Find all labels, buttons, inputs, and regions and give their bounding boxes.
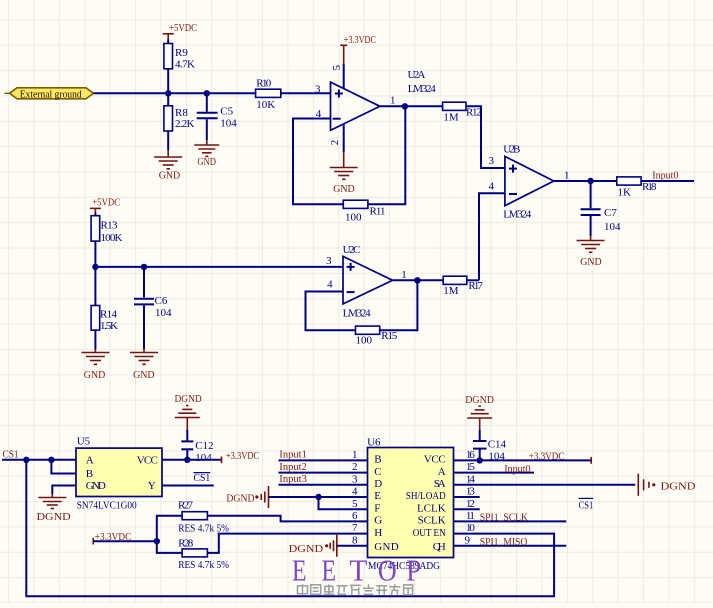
- capacitor C7: [581, 207, 621, 233]
- svg-text:U6: U6: [367, 437, 381, 449]
- svg-text:Input2: Input2: [279, 461, 307, 473]
- wire: [279, 484, 368, 486]
- svg-text:DGND: DGND: [226, 492, 254, 504]
- svg-text:C6: C6: [155, 295, 168, 307]
- capacitor C5: [197, 106, 238, 130]
- svg-text:C12: C12: [195, 440, 213, 452]
- node junction: [204, 90, 210, 96]
- svg-text:1: 1: [564, 170, 570, 182]
- svg-text:U2C: U2C: [343, 244, 361, 256]
- svg-text:CS1: CS1: [3, 448, 19, 460]
- svg-text:H: H: [374, 527, 382, 539]
- svg-text:E: E: [322, 552, 337, 587]
- wire: [94, 330, 96, 349]
- svg-text:+3.3VDC: +3.3VDC: [344, 34, 376, 46]
- wire pin11: [454, 520, 567, 522]
- resistor R12: [443, 102, 482, 123]
- svg-text:GND: GND: [580, 256, 602, 268]
- capacitor C14: [473, 439, 507, 463]
- svg-text:U2B: U2B: [503, 143, 520, 155]
- svg-text:B: B: [86, 468, 93, 480]
- wire pin9: [454, 545, 567, 547]
- svg-text:Y: Y: [148, 480, 156, 492]
- wire pin16: [454, 459, 592, 461]
- svg-text:A: A: [86, 454, 94, 466]
- ground DGND inverted: [465, 394, 494, 441]
- ground DGND left pin8: [289, 535, 337, 557]
- svg-text:SH/LOAD: SH/LOAD: [406, 490, 446, 502]
- svg-text:RES 4.7k 5%: RES 4.7k 5%: [178, 559, 229, 571]
- svg-text:U2A: U2A: [408, 69, 426, 81]
- wire: [281, 92, 331, 94]
- svg-text:DGND: DGND: [37, 511, 71, 523]
- op-amp U2B: [505, 156, 554, 205]
- node junction: [48, 457, 54, 463]
- power +3.3VDC: [222, 450, 260, 463]
- resistor R13: [91, 216, 122, 244]
- node junction: [587, 178, 593, 184]
- svg-text:R11: R11: [370, 206, 386, 218]
- wire: [93, 540, 157, 542]
- svg-text:F: F: [374, 502, 380, 514]
- resistor R28: [178, 537, 229, 571]
- svg-text:3: 3: [315, 83, 321, 95]
- svg-text:B: B: [374, 454, 381, 466]
- svg-text:2: 2: [352, 461, 358, 473]
- wire: [279, 472, 368, 474]
- svg-text:LCLK: LCLK: [417, 502, 446, 514]
- svg-text:SCLK: SCLK: [418, 515, 446, 527]
- svg-text:A: A: [438, 466, 446, 478]
- wire: [337, 545, 368, 547]
- wire: [51, 460, 76, 474]
- svg-text:U5: U5: [77, 435, 91, 447]
- svg-text:11: 11: [466, 510, 475, 522]
- svg-text:16: 16: [466, 449, 476, 461]
- node junction: [92, 264, 98, 270]
- capacitor C12: [181, 440, 213, 464]
- node junction: [315, 494, 321, 500]
- svg-text:3: 3: [326, 255, 332, 267]
- wire pin4 feedback: [306, 292, 356, 331]
- port External ground: [5, 88, 94, 101]
- wire output: [380, 105, 443, 107]
- svg-text:14: 14: [466, 473, 476, 485]
- svg-text:GND: GND: [374, 541, 398, 553]
- node junction: [477, 457, 483, 463]
- svg-text:104: 104: [220, 118, 237, 130]
- wire pin 2: [343, 124, 345, 152]
- svg-text:1.5K: 1.5K: [100, 320, 118, 332]
- node junction: [141, 264, 147, 270]
- svg-text:4: 4: [489, 181, 495, 193]
- wire: [368, 106, 405, 204]
- wire: [279, 459, 368, 461]
- node junction: [184, 457, 190, 463]
- svg-text:GND: GND: [84, 369, 106, 381]
- svg-text:SN74LVC1G00: SN74LVC1G00: [77, 499, 137, 511]
- ground GND: [154, 150, 182, 181]
- wire: [95, 266, 343, 268]
- ground DGND inverted: [175, 393, 202, 441]
- ground DGND right: [638, 474, 695, 496]
- svg-text:SPI1_SCLK: SPI1_SCLK: [480, 512, 528, 524]
- wire: [157, 541, 182, 553]
- svg-text:R12: R12: [466, 107, 482, 119]
- svg-text:R17: R17: [468, 280, 483, 292]
- wire: [143, 305, 145, 349]
- svg-text:SPI1_MISO: SPI1_MISO: [480, 536, 528, 548]
- svg-text:C7: C7: [604, 207, 617, 219]
- svg-text:+3.3VDC: +3.3VDC: [529, 450, 565, 462]
- svg-text:Input0: Input0: [504, 463, 531, 475]
- wire output: [393, 279, 444, 281]
- svg-text:GND: GND: [197, 156, 216, 168]
- wire pin13: [454, 496, 480, 498]
- svg-text:DGND: DGND: [465, 394, 494, 406]
- svg-text:2: 2: [329, 140, 341, 146]
- svg-text:R18: R18: [642, 181, 657, 193]
- resistor R9: [164, 44, 195, 71]
- svg-text:G: G: [374, 515, 382, 527]
- svg-text:Input0: Input0: [652, 170, 679, 182]
- svg-text:External ground: External ground: [20, 88, 82, 100]
- svg-text:8: 8: [352, 534, 358, 546]
- svg-text:1M: 1M: [443, 285, 459, 297]
- net label CS1: [579, 498, 594, 511]
- power +3.3VDC: [529, 450, 591, 463]
- svg-text:LM324: LM324: [408, 83, 437, 95]
- svg-text:VCC: VCC: [137, 454, 158, 466]
- wire: [207, 534, 367, 553]
- wire: [641, 180, 694, 182]
- wire: [94, 241, 96, 305]
- node junction: [154, 538, 160, 544]
- wire: [167, 69, 169, 106]
- ground GND: [81, 349, 109, 381]
- ground GND: [130, 349, 158, 381]
- watermark chinese text: [298, 584, 413, 595]
- resistor R17: [443, 276, 483, 297]
- wire output: [554, 180, 617, 182]
- node junction: [402, 103, 408, 109]
- svg-text:C14: C14: [488, 439, 507, 451]
- svg-text:10: 10: [466, 522, 476, 534]
- svg-text:QH: QH: [433, 541, 446, 553]
- wire: [269, 496, 368, 498]
- power +3.3VDC: [340, 34, 376, 88]
- svg-text:3: 3: [352, 473, 358, 485]
- svg-text:LM324: LM324: [343, 308, 372, 320]
- svg-text:R10: R10: [256, 77, 272, 89]
- svg-text:10K: 10K: [256, 99, 275, 111]
- node junction: [165, 90, 171, 96]
- resistor R18: [617, 177, 657, 199]
- svg-text:104: 104: [488, 450, 505, 462]
- svg-text:5: 5: [352, 498, 358, 510]
- wire: [590, 216, 592, 236]
- svg-text:DGND: DGND: [661, 481, 696, 493]
- svg-text:CS1: CS1: [194, 472, 211, 484]
- svg-text:CS1: CS1: [579, 499, 594, 511]
- ground DGND left: [226, 486, 268, 508]
- wire: [467, 279, 479, 281]
- svg-text:LM324: LM324: [503, 209, 532, 221]
- svg-text:O: O: [378, 552, 397, 587]
- svg-text:GND: GND: [159, 169, 181, 181]
- resistor R15: [356, 326, 398, 346]
- wire U5 Y pin: [162, 485, 214, 487]
- resistor R11: [343, 200, 385, 223]
- wire: [590, 181, 592, 208]
- svg-text:GND: GND: [333, 183, 355, 195]
- op-amp U2C: [343, 256, 393, 304]
- node junction: [414, 277, 420, 283]
- wire: [207, 516, 367, 522]
- resistor R27: [178, 500, 229, 535]
- svg-text:1M: 1M: [443, 111, 459, 123]
- svg-text:E: E: [292, 552, 307, 587]
- svg-text:C5: C5: [220, 106, 233, 118]
- svg-text:3: 3: [489, 155, 495, 167]
- svg-text:104: 104: [195, 452, 212, 464]
- svg-text:+5VDC: +5VDC: [169, 22, 197, 34]
- wire pin12: [454, 508, 480, 510]
- svg-text:DGND: DGND: [175, 393, 202, 405]
- ground DGND: [37, 494, 71, 523]
- wire pin14: [454, 484, 636, 486]
- wire loop CS1 to pin10: [26, 460, 554, 596]
- resistor R8: [164, 106, 195, 131]
- svg-text:Input1: Input1: [279, 449, 307, 461]
- wire: [206, 93, 208, 112]
- svg-text:104: 104: [604, 221, 621, 233]
- capacitor C6: [134, 295, 172, 319]
- svg-text:2.2K: 2.2K: [175, 118, 195, 130]
- resistor R10: [256, 77, 281, 111]
- svg-text:5: 5: [331, 64, 343, 70]
- svg-text:9: 9: [465, 534, 471, 546]
- IC U5: [76, 448, 162, 496]
- ground GND: [194, 140, 219, 168]
- wire pin15: [454, 472, 535, 474]
- wire: [206, 119, 208, 140]
- svg-text:SA: SA: [434, 478, 446, 490]
- svg-text:6: 6: [352, 510, 358, 522]
- ground GND: [577, 236, 605, 268]
- svg-text:GND: GND: [86, 480, 106, 492]
- svg-text:VCC: VCC: [424, 454, 446, 466]
- wire: [167, 131, 169, 150]
- svg-text:+3.3VDC: +3.3VDC: [226, 450, 259, 462]
- ground GND: [330, 152, 358, 195]
- op-amp U2A: [331, 82, 380, 130]
- wire U5 GND pin: [52, 486, 76, 495]
- wire: [479, 193, 505, 280]
- wire: [157, 516, 182, 542]
- svg-text:4: 4: [327, 279, 333, 291]
- svg-text:13: 13: [466, 486, 476, 498]
- power +3.3VDC: [93, 531, 131, 545]
- svg-text:R15: R15: [381, 330, 398, 342]
- svg-text:100: 100: [345, 211, 362, 223]
- svg-text:100K: 100K: [101, 232, 123, 244]
- svg-text:Input3: Input3: [279, 473, 307, 485]
- svg-text:E: E: [374, 490, 381, 502]
- watermark EETOP: [292, 552, 421, 587]
- svg-text:R9: R9: [175, 47, 188, 59]
- wire: [466, 106, 505, 168]
- svg-text:R13: R13: [101, 220, 119, 232]
- node junction: [23, 457, 29, 463]
- svg-text:R27: R27: [178, 500, 194, 512]
- svg-text:4.7K: 4.7K: [175, 59, 195, 71]
- svg-text:D: D: [374, 478, 382, 490]
- wire: [319, 497, 368, 509]
- svg-text:R14: R14: [100, 308, 118, 320]
- wire: [2, 459, 76, 461]
- wire: [94, 92, 256, 94]
- svg-text:1K: 1K: [618, 187, 632, 199]
- svg-text:GND: GND: [133, 369, 155, 381]
- wire: [186, 450, 188, 460]
- svg-text:P: P: [406, 552, 421, 587]
- wire: [380, 280, 418, 330]
- power +5VDC: [163, 22, 197, 44]
- svg-text:1: 1: [390, 94, 396, 106]
- wire pin4 feedback: [293, 119, 343, 205]
- svg-text:15: 15: [466, 461, 476, 473]
- svg-text:4: 4: [352, 486, 358, 498]
- svg-text:T: T: [349, 552, 367, 587]
- power +5VDC: [90, 197, 120, 216]
- svg-text:12: 12: [466, 498, 475, 510]
- svg-text:7: 7: [352, 522, 358, 534]
- wire: [143, 267, 145, 298]
- svg-text:1: 1: [352, 449, 358, 461]
- IC U6: [368, 448, 454, 558]
- net label CS1: [194, 472, 211, 484]
- svg-text:OUT EN: OUT EN: [413, 527, 446, 539]
- svg-text:1: 1: [401, 269, 407, 281]
- svg-text:+5VDC: +5VDC: [92, 197, 120, 209]
- svg-text:100: 100: [356, 334, 373, 346]
- wire U5 VCC: [162, 459, 222, 461]
- svg-text:C: C: [374, 466, 381, 478]
- svg-text:104: 104: [155, 307, 172, 319]
- wire: [479, 450, 481, 461]
- svg-text:R28: R28: [178, 537, 194, 549]
- svg-text:RES 4.7k 5%: RES 4.7k 5%: [178, 522, 229, 534]
- resistor R14: [91, 306, 118, 333]
